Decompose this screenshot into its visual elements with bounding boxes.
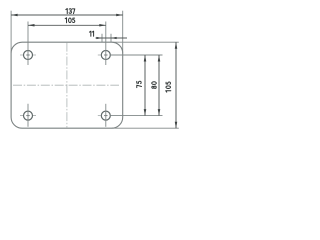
right hole column extension (105) [105,22,107,66]
75 bottom arrow [144,109,147,116]
hole top-right [98,51,111,60]
right plate edge extension (137 / 11) [122,11,124,54]
11-dim right extension (hole tangent) [110,34,112,42]
label 75 [137,81,142,87]
top hole row extension to right (75/80) [111,54,163,56]
vertical centerline [66,43,68,128]
dim 137 line [11,14,123,16]
dim 11 line [96,37,128,39]
105 left arrow [28,24,35,27]
80 bottom arrow [158,109,161,116]
11 left arrow [96,37,102,39]
label 137 [66,9,75,14]
11 right arrow [111,37,117,39]
dim 75 line [144,55,146,116]
arrowheads [11,14,177,128]
11-dim left extension (hole tangent) [101,34,103,42]
dim 80 line [158,55,160,116]
dimension lines [11,15,176,128]
label 80 [152,82,157,89]
80 top arrow [158,55,161,62]
105 right arrow [99,24,106,27]
dim 105 right line [175,42,177,128]
hole bottom-right [98,104,111,127]
105R bottom arrow [175,122,178,129]
label 11 [89,31,93,36]
hole top-left [20,51,36,60]
plate top extension to right (105 vert) [112,41,179,43]
left plate edge extension (137) [10,11,12,54]
105R top arrow [175,42,178,49]
75 top arrow [144,55,147,62]
dim 105 top line [28,24,106,26]
label 105 top [65,18,75,23]
horizontal centerline [13,84,119,86]
plate outline [11,42,123,128]
hole bottom-left [20,104,36,127]
plate bottom extension to right (105 vert) [112,127,179,129]
137 left arrow [11,14,18,17]
bottom hole row extension to right (75/80) [111,115,163,117]
label 105 right [166,82,171,92]
left hole column extension (105) [27,22,29,66]
137 right arrow [116,14,123,17]
extension lines [11,11,179,129]
